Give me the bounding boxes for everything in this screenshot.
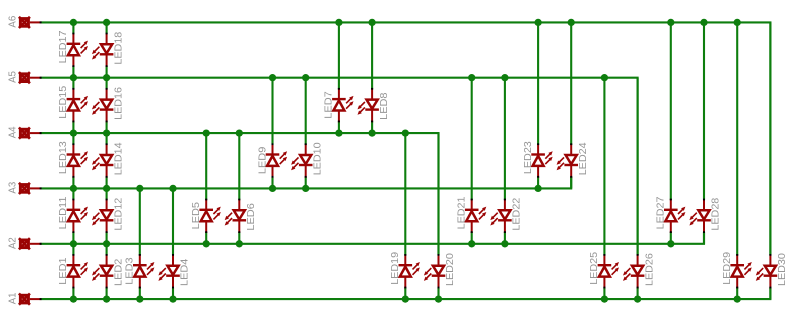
junction A4 x0 <box>70 129 77 136</box>
junction A2 x5 <box>236 240 243 247</box>
svg-text:LED11: LED11 <box>58 196 69 229</box>
LED LED20 (anode up, pointing down) <box>424 253 456 289</box>
wire A2 to LED1 anode-side vertical <box>72 244 74 256</box>
wire A6 to LED29 anode-side vertical <box>736 22 738 255</box>
LED LED27 (anode down, pointing up) <box>656 196 686 233</box>
wire LED5 to A2 vertical <box>205 232 207 244</box>
wire LED1 to A1 vertical <box>72 288 74 300</box>
LED LED17 (anode down, pointing up) <box>58 30 88 67</box>
wire A5 to LED22 vertical <box>504 78 506 200</box>
junction A6 x15 <box>568 19 575 26</box>
junction A1 x17 <box>634 295 641 302</box>
LED LED3 (anode down, pointing up) <box>125 254 155 288</box>
wire A4 to LED6 vertical <box>238 133 240 200</box>
junction A1 x0 <box>70 295 77 302</box>
wire LED28 to A2 vertical <box>703 232 705 244</box>
wire A4 to LED5 anode-side vertical <box>205 133 207 200</box>
svg-text:A2: A2 <box>8 237 19 249</box>
wire net A6 horizontal rail <box>41 22 770 255</box>
wire A4 to LED20 vertical <box>437 133 439 255</box>
wire A6 to LED18 vertical <box>106 22 108 34</box>
junction A4 x5 <box>236 129 243 136</box>
LED LED4 (anode up, pointing down) <box>158 254 190 288</box>
junction A3 x7 <box>302 185 309 192</box>
wire LED30 to A1 vertical <box>769 288 771 300</box>
wire LED24 to A3 vertical <box>570 177 572 189</box>
wire A6 to LED23 anode-side vertical <box>537 22 539 144</box>
wire A3 to LED4 vertical <box>172 188 174 255</box>
LED LED15 (anode down, pointing up) <box>58 85 88 122</box>
LED LED24 (anode up, pointing down) <box>557 142 589 178</box>
svg-text:LED7: LED7 <box>324 91 335 119</box>
wire LED22 to A2 vertical <box>504 232 506 244</box>
wire A5 to LED25 anode-side vertical <box>603 78 605 256</box>
junction A3 x1 <box>103 185 110 192</box>
svg-text:LED1: LED1 <box>58 257 69 285</box>
wire LED8 to A4 vertical <box>371 121 373 133</box>
LED LED21 (anode down, pointing up) <box>457 196 487 233</box>
wire net A3 horizontal rail <box>41 177 571 189</box>
svg-text:LED24: LED24 <box>578 142 589 175</box>
junction A1 x1 <box>103 295 110 302</box>
svg-text:LED8: LED8 <box>379 92 390 120</box>
LED LED23 (anode down, pointing up) <box>523 141 553 178</box>
junction A6 x14 <box>534 19 541 26</box>
junction A4 x8 <box>335 129 342 136</box>
wire A5 to LED9 anode-side vertical <box>271 78 273 145</box>
wire net A4 horizontal rail <box>41 133 438 255</box>
wire LED7 to A4 vertical <box>338 121 340 133</box>
LED LED1 (anode down, pointing up) <box>58 254 88 288</box>
svg-text:LED26: LED26 <box>644 253 655 286</box>
wire LED3 to A1 vertical <box>139 288 141 300</box>
svg-text:A1: A1 <box>8 292 19 304</box>
svg-text:A6: A6 <box>8 15 19 27</box>
wire LED21 to A2 vertical <box>471 232 473 244</box>
wire LED19 to A1 vertical <box>404 288 406 300</box>
svg-text:LED17: LED17 <box>58 30 69 63</box>
wire A5 to LED21 anode-side vertical <box>471 78 473 200</box>
wire A6 to LED17 anode-side vertical <box>72 22 74 34</box>
wire LED29 to A1 vertical <box>736 288 738 300</box>
junction A4 x4 <box>203 129 210 136</box>
LED LED6 (anode up, pointing down) <box>225 199 257 233</box>
wire A4 to LED19 anode-side vertical <box>404 133 406 255</box>
wire LED18 to A5 vertical <box>106 66 108 78</box>
pin header connector A5 <box>8 71 42 84</box>
junction A6 x8 <box>335 19 342 26</box>
LED LED12 (anode up, pointing down) <box>92 197 124 233</box>
svg-text:LED10: LED10 <box>312 142 323 175</box>
LED LED11 (anode down, pointing up) <box>58 196 88 233</box>
svg-text:A5: A5 <box>8 71 19 83</box>
wire LED26 to A1 vertical <box>637 288 639 300</box>
junction A6 x1 <box>103 19 110 26</box>
wire A4 to LED14 vertical <box>106 133 108 145</box>
LED LED28 (anode up, pointing down) <box>689 197 721 233</box>
junction A3 x0 <box>70 185 77 192</box>
wire net A1 horizontal rail <box>41 288 770 300</box>
svg-text:LED15: LED15 <box>58 85 69 118</box>
junction A3 x6 <box>269 185 276 192</box>
svg-text:LED9: LED9 <box>257 146 268 174</box>
svg-text:LED27: LED27 <box>656 196 667 229</box>
junction A5 x13 <box>501 74 508 81</box>
LED LED26 (anode up, pointing down) <box>623 253 655 289</box>
svg-text:LED29: LED29 <box>722 252 733 285</box>
svg-text:LED18: LED18 <box>113 31 124 64</box>
junction A2 x18 <box>667 240 674 247</box>
LED LED25 (anode down, pointing up) <box>589 252 619 289</box>
pin header connector A4 <box>8 126 42 139</box>
junction A2 x1 <box>103 240 110 247</box>
svg-text:LED3: LED3 <box>125 257 136 285</box>
junction A2 x13 <box>501 240 508 247</box>
junction A5 x1 <box>103 74 110 81</box>
wire net A2 horizontal rail <box>41 232 704 244</box>
svg-text:LED30: LED30 <box>777 253 788 286</box>
svg-text:LED22: LED22 <box>512 197 523 230</box>
LED LED2 (anode up, pointing down) <box>92 254 124 288</box>
LED LED30 (anode up, pointing down) <box>756 253 788 289</box>
wire A5 to LED26 vertical <box>637 78 639 256</box>
junction A6 x0 <box>70 19 77 26</box>
wire LED14 to A3 vertical <box>106 177 108 189</box>
LED LED14 (anode up, pointing down) <box>92 142 124 178</box>
LED LED29 (anode down, pointing up) <box>722 252 752 289</box>
wire LED4 to A1 vertical <box>172 288 174 300</box>
wire LED17 to A5 vertical <box>72 66 74 78</box>
wire A2 to LED2 vertical <box>106 244 108 256</box>
wire LED6 to A2 vertical <box>238 232 240 244</box>
svg-text:LED12: LED12 <box>113 197 124 230</box>
junction A5 x0 <box>70 74 77 81</box>
svg-text:LED4: LED4 <box>180 258 191 286</box>
junction A2 x4 <box>203 240 210 247</box>
svg-text:LED21: LED21 <box>457 196 468 229</box>
LED LED7 (anode down, pointing up) <box>324 88 354 122</box>
junction A6 x9 <box>368 19 375 26</box>
LED LED16 (anode up, pointing down) <box>92 87 124 123</box>
junction A1 x3 <box>169 295 176 302</box>
wire LED10 to A3 vertical <box>305 177 307 189</box>
junction A1 x2 <box>136 295 143 302</box>
junction A5 x16 <box>601 74 608 81</box>
wire net A5 horizontal rail <box>41 78 637 256</box>
junction A4 x1 <box>103 129 110 136</box>
junction A6 x20 <box>734 19 741 26</box>
svg-text:LED13: LED13 <box>58 141 69 174</box>
wire A6 to LED8 vertical <box>371 22 373 89</box>
pin header connector A2 <box>8 237 42 250</box>
wire LED9 to A3 vertical <box>271 177 273 189</box>
LED LED22 (anode up, pointing down) <box>490 197 522 233</box>
wire LED23 to A3 vertical <box>537 177 539 189</box>
junction A6 x18 <box>667 19 674 26</box>
LED LED10 (anode up, pointing down) <box>291 142 323 178</box>
wire A6 to LED24 vertical <box>570 22 572 144</box>
LED LED19 (anode down, pointing up) <box>390 252 420 289</box>
wire LED2 to A1 vertical <box>106 288 108 300</box>
wire LED15 to A4 vertical <box>72 121 74 133</box>
LED LED5 (anode down, pointing up) <box>191 199 221 233</box>
LED LED13 (anode down, pointing up) <box>58 141 88 178</box>
svg-text:LED19: LED19 <box>390 252 401 285</box>
svg-text:LED23: LED23 <box>523 141 534 174</box>
junction A4 x10 <box>402 129 409 136</box>
junction A6 x19 <box>700 19 707 26</box>
wire A4 to LED13 anode-side vertical <box>72 133 74 145</box>
junction A1 x16 <box>601 295 608 302</box>
svg-text:LED28: LED28 <box>711 197 722 230</box>
junction A3 x2 <box>136 185 143 192</box>
svg-text:LED16: LED16 <box>113 87 124 120</box>
wire A6 to LED28 vertical <box>703 22 705 200</box>
wire A6 to LED30 vertical <box>769 22 771 255</box>
wire LED25 to A1 vertical <box>603 288 605 300</box>
junction A3 x3 <box>169 185 176 192</box>
LED LED8 (anode up, pointing down) <box>358 88 390 122</box>
svg-text:LED14: LED14 <box>113 142 124 175</box>
wire A5 to LED16 vertical <box>106 78 108 90</box>
svg-text:A3: A3 <box>8 181 19 193</box>
wire A6 to LED7 anode-side vertical <box>338 22 340 89</box>
wire LED12 to A2 vertical <box>106 232 108 244</box>
junction A2 x0 <box>70 240 77 247</box>
svg-text:LED6: LED6 <box>246 203 257 231</box>
junction A1 x11 <box>435 295 442 302</box>
LED LED9 (anode down, pointing up) <box>257 143 287 177</box>
junction A1 x10 <box>402 295 409 302</box>
pin header connector A3 <box>8 181 42 194</box>
wire LED27 to A2 vertical <box>670 232 672 244</box>
wire LED16 to A4 vertical <box>106 121 108 133</box>
wire LED20 to A1 vertical <box>437 288 439 300</box>
svg-text:LED25: LED25 <box>589 252 600 285</box>
junction A4 x9 <box>368 129 375 136</box>
svg-text:LED2: LED2 <box>113 258 124 286</box>
wire A5 to LED10 vertical <box>305 78 307 145</box>
junction A5 x6 <box>269 74 276 81</box>
svg-text:LED20: LED20 <box>445 253 456 286</box>
junction A3 x14 <box>534 185 541 192</box>
svg-text:LED5: LED5 <box>191 202 202 230</box>
wire A3 to LED12 vertical <box>106 188 108 200</box>
wire A6 to LED27 anode-side vertical <box>670 22 672 200</box>
junction A2 x12 <box>468 240 475 247</box>
wire A3 to LED3 anode-side vertical <box>139 188 141 255</box>
junction A5 x7 <box>302 74 309 81</box>
svg-text:A4: A4 <box>8 126 19 138</box>
junction A5 x12 <box>468 74 475 81</box>
wire A5 to LED15 anode-side vertical <box>72 78 74 90</box>
wire LED11 to A2 vertical <box>72 232 74 244</box>
pin header connector A6 <box>8 15 42 28</box>
wire LED13 to A3 vertical <box>72 177 74 189</box>
pin header connector A1 <box>8 292 42 305</box>
wire A3 to LED11 anode-side vertical <box>72 188 74 200</box>
junction A1 x20 <box>734 295 741 302</box>
LED LED18 (anode up, pointing down) <box>92 31 124 67</box>
